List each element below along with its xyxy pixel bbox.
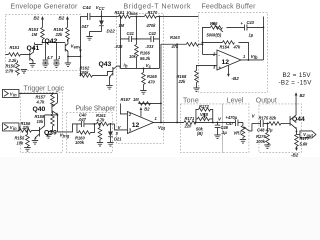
- resistor R153 1M: [28, 26, 44, 42]
- svg-text:220: 220: [183, 124, 192, 129]
- resistor R172: [198, 104, 210, 111]
- svg-text:100k: 100k: [79, 70, 89, 75]
- svg-text:1M: 1M: [31, 32, 37, 37]
- ground Q39 emitter: [32, 140, 38, 144]
- ground under C46: [214, 135, 220, 139]
- tone box: [180, 104, 222, 153]
- capacitor C39 1u: [53, 42, 61, 67]
- wire wiper out: [249, 123, 252, 131]
- potentiometer VR8: [196, 112, 210, 136]
- svg-text:R175 82k: R175 82k: [258, 116, 276, 121]
- resistor R150 2.7k: [4, 60, 19, 75]
- svg-text:47k: 47k: [232, 45, 241, 50]
- svg-text:in: in: [13, 126, 17, 131]
- ground under R176: [264, 145, 270, 149]
- supply B2 at Q44 collector: [295, 92, 306, 98]
- svg-text:2.2k: 2.2k: [7, 58, 17, 63]
- svg-text:1M: 1M: [133, 97, 139, 102]
- svg-text:VR6: VR6: [209, 21, 218, 26]
- svg-text:Q39: Q39: [44, 129, 57, 136]
- node Vbt label: [158, 125, 166, 131]
- ground under R155: [24, 147, 30, 151]
- svg-text:4.7k: 4.7k: [95, 117, 105, 122]
- svg-text:R161: R161: [114, 10, 125, 15]
- svg-text:5.6k: 5.6k: [299, 141, 308, 146]
- resistor R154 22k: [53, 26, 69, 41]
- svg-text:B2: B2: [58, 15, 64, 20]
- svg-text:R151: R151: [9, 45, 20, 50]
- feedback buffer box: [198, 12, 267, 92]
- envelope generator box: [5, 14, 80, 70]
- resistor R157 4.7k: [35, 93, 54, 106]
- svg-text:R177: R177: [299, 136, 310, 141]
- ground under VR7: [240, 139, 246, 143]
- svg-text:VR8: VR8: [200, 112, 209, 117]
- node Vc: [143, 63, 152, 69]
- level box: [222, 104, 249, 153]
- svg-text:1M: 1M: [118, 23, 124, 28]
- svg-text:R172: R172: [199, 104, 210, 109]
- svg-text:-B2: -B2: [231, 76, 239, 81]
- svg-text:(B): (B): [197, 131, 203, 136]
- transistor Q39: [34, 115, 57, 141]
- svg-text:.047: .047: [80, 24, 89, 29]
- svg-text:+470µ: +470µ: [225, 115, 237, 120]
- wire plus input: [114, 124, 127, 130]
- wire pulse shaper main: [94, 123, 96, 125]
- svg-text:470: 470: [147, 79, 156, 84]
- resistor R171 220: [183, 116, 196, 128]
- resistor R166 56.2k: [129, 38, 151, 68]
- svg-text:Q41: Q41: [26, 45, 39, 52]
- svg-text:12: 12: [221, 59, 229, 66]
- svg-text:10k: 10k: [16, 140, 24, 145]
- resistor R158 10k: [34, 112, 54, 133]
- diode D22: [89, 20, 115, 36]
- svg-text:Level: Level: [227, 97, 244, 104]
- resistor R170 470k: [144, 10, 198, 28]
- svg-text:.033: .033: [145, 44, 154, 49]
- node output: [267, 123, 269, 125]
- wire Q41 collector to Q42 base: [34, 42, 65, 44]
- resistor R168 22k: [176, 70, 198, 87]
- svg-text:bias: bias: [130, 11, 139, 16]
- ground Q43 emitter: [106, 85, 112, 89]
- resistor R177 5.6k: [295, 131, 310, 148]
- svg-text:Output: Output: [256, 97, 277, 104]
- svg-text:R167: R167: [120, 97, 131, 102]
- wire output: [153, 121, 184, 123]
- svg-text:trig: trig: [63, 134, 70, 139]
- wire bridged-T bottom to Vc: [120, 67, 159, 69]
- svg-text:22k: 22k: [54, 32, 63, 37]
- svg-text:R171: R171: [184, 116, 195, 121]
- svg-text:env: env: [74, 45, 82, 50]
- capacitor C47 470u: [225, 115, 243, 126]
- wire inverting input: [202, 53, 217, 55]
- svg-text:Tone: Tone: [183, 97, 199, 104]
- note supply voltages: [278, 72, 312, 87]
- svg-text:bt: bt: [161, 126, 166, 131]
- supply B2 arrow right: [58, 15, 68, 26]
- node Venv label: [70, 43, 81, 52]
- wire Venv vertical rail: [79, 16, 81, 75]
- svg-text:C43: C43: [246, 20, 254, 25]
- svg-text:B2: B2: [144, 106, 150, 111]
- capacitor C41 .015: [114, 31, 136, 49]
- ground under R159: [97, 142, 103, 146]
- ground under R165: [140, 90, 146, 94]
- wire feedback top: [120, 44, 186, 122]
- wire feedback loop 2: [202, 42, 248, 60]
- svg-text:B2: B2: [33, 15, 39, 20]
- wire Vbt tap to feedback buffer input: [176, 44, 178, 122]
- resistor R165 470: [142, 68, 158, 90]
- svg-text:100k: 100k: [75, 140, 85, 145]
- svg-text:47k: 47k: [170, 44, 179, 49]
- resistor R161 4.7k: [95, 113, 114, 125]
- op-amp U12a: [127, 111, 157, 133]
- capacitor C42 .033: [136, 31, 159, 49]
- capacitor C38 4.7u: [42, 42, 53, 67]
- svg-text:22k: 22k: [21, 125, 30, 130]
- svg-text:.015: .015: [114, 44, 123, 49]
- resistor R151 2.2k: [5, 45, 29, 63]
- svg-text:1µ: 1µ: [248, 32, 253, 37]
- transistor Q43: [98, 61, 120, 85]
- capacitor C40 .047 parallel: [77, 113, 95, 127]
- input flag Vin trigger: [2, 89, 19, 97]
- svg-text:56.2k: 56.2k: [140, 56, 151, 61]
- svg-text:R170: R170: [147, 10, 158, 15]
- potentiometer VR6 500k(B): [206, 21, 223, 37]
- svg-text:Envelope Generator: Envelope Generator: [10, 3, 78, 10]
- svg-text:B2 = 15V: B2 = 15V: [282, 72, 311, 79]
- wire parallel loop: [196, 109, 213, 122]
- svg-text:10k: 10k: [36, 119, 44, 124]
- svg-text:10k: 10k: [129, 54, 137, 59]
- svg-text:4.7: 4.7: [46, 55, 53, 60]
- wire bridge right vertical: [158, 16, 160, 68]
- svg-text:D21: D21: [114, 136, 122, 141]
- wire level to output: [252, 122, 261, 124]
- ground under R158: [45, 134, 51, 138]
- svg-text:R164: R164: [219, 45, 230, 50]
- svg-text:Feedback Buffer: Feedback Buffer: [201, 3, 256, 10]
- svg-text:C44: C44: [82, 5, 91, 10]
- wire feedback loop 1: [202, 27, 244, 54]
- svg-text:Pulse Shaper: Pulse Shaper: [75, 105, 115, 112]
- wire C44 to BT box: [90, 15, 117, 17]
- svg-text:Q43: Q43: [98, 61, 111, 68]
- capacitor C43 1u: [240, 20, 263, 38]
- supply B2 arrow left: [33, 15, 44, 26]
- resistor R176 100k: [256, 123, 269, 145]
- node A: [42, 42, 44, 44]
- resistor R155 10k: [14, 130, 29, 148]
- resistor R167 1M: [120, 97, 150, 105]
- wire plus input to R168: [196, 65, 217, 70]
- resistor R162 100k: [79, 65, 112, 77]
- output box: [259, 104, 302, 153]
- ground under R150: [21, 69, 27, 73]
- svg-text:Q40: Q40: [32, 106, 45, 113]
- diode D21: [108, 123, 122, 142]
- node Vfb label: [250, 54, 258, 60]
- wire top rail to C44: [80, 15, 87, 17]
- ground Q41 emitter: [29, 63, 35, 67]
- capacitor C46 .1u: [215, 122, 229, 135]
- supply B2 into op-amp: [140, 106, 151, 116]
- wire Vtrig out: [57, 124, 76, 132]
- wire big feedback vertical: [262, 16, 264, 60]
- svg-text:in: in: [13, 93, 17, 98]
- wire to level: [195, 121, 236, 123]
- transistor Q41: [26, 45, 39, 64]
- bridged-T network box: [116, 13, 163, 143]
- svg-text:22k: 22k: [177, 79, 186, 84]
- supply -B2: [227, 65, 239, 81]
- svg-text:.1µ: .1µ: [221, 130, 227, 135]
- svg-text:Trigger Logic: Trigger Logic: [23, 85, 64, 92]
- wire Q42 emitter to Venv rail: [68, 55, 81, 57]
- resistor R175 82k: [258, 116, 290, 126]
- svg-text:-B2: -B2: [291, 152, 299, 157]
- svg-text:R165: R165: [147, 74, 158, 79]
- transistor Q44: [290, 94, 305, 131]
- resistor R159 pulldown: [98, 123, 102, 142]
- node Vbias: [126, 10, 144, 17]
- svg-text:R166: R166: [140, 50, 151, 55]
- node inverting input: [202, 43, 204, 45]
- svg-text:2.7k: 2.7k: [4, 68, 14, 73]
- svg-text:D22: D22: [106, 28, 115, 33]
- svg-text:500k(B): 500k(B): [206, 32, 221, 37]
- potentiometer VR7: [233, 122, 249, 139]
- ground under D21: [107, 142, 113, 146]
- svg-text:4.7k: 4.7k: [35, 99, 45, 104]
- node Vtrig label: [59, 132, 69, 138]
- svg-text:.047: .047: [78, 117, 87, 122]
- ground under D22: [86, 36, 92, 40]
- wire input to chain: [19, 92, 58, 94]
- input flag Vin lower: [2, 123, 20, 131]
- resistor R161 1M: [114, 10, 130, 28]
- svg-text:VR7: VR7: [233, 130, 242, 135]
- capacitor C48 47u: [257, 120, 273, 133]
- svg-text:C42: C42: [148, 31, 156, 36]
- resistor R164 47k: [219, 41, 241, 50]
- svg-text:C41: C41: [126, 31, 134, 36]
- wire bridge left vertical: [119, 16, 121, 68]
- svg-text:R163: R163: [170, 35, 181, 40]
- supply -B2 at R177: [291, 148, 299, 158]
- node tone left: [195, 122, 197, 124]
- svg-text:Q42: Q42: [44, 38, 57, 45]
- resistor R163 47k: [170, 35, 203, 49]
- node tone right: [212, 122, 214, 124]
- ground Q42 emitter: [65, 56, 71, 66]
- pulse shaper box: [66, 112, 112, 152]
- transistor Q42: [44, 38, 68, 57]
- capacitor C44 .047: [80, 5, 91, 29]
- ground under R168: [193, 88, 199, 92]
- trigger logic box: [20, 92, 62, 152]
- svg-text:12: 12: [132, 122, 140, 129]
- svg-text:100k: 100k: [256, 139, 266, 144]
- output flag Vout: [296, 131, 316, 138]
- svg-text:B2: B2: [299, 93, 305, 98]
- svg-text:fb: fb: [254, 55, 258, 60]
- node Vcc: [95, 5, 104, 21]
- wire Vbias drop: [135, 16, 137, 39]
- svg-text:C47: C47: [226, 121, 234, 126]
- resistor R160 100k parallel: [75, 124, 95, 145]
- svg-text:C48 47µ: C48 47µ: [257, 128, 273, 133]
- transistor Q40: [32, 93, 57, 132]
- svg-text:470k: 470k: [145, 23, 156, 28]
- resistor R156 22k: [18, 121, 40, 132]
- svg-text:-B2 = -15V: -B2 = -15V: [278, 80, 312, 87]
- wire output Vfb: [241, 59, 264, 61]
- op-amp U12b: [212, 50, 246, 70]
